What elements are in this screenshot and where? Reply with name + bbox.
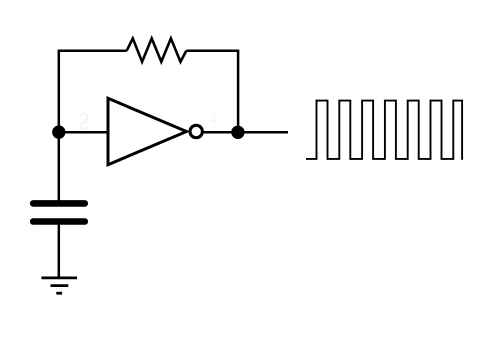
ground bar 1 [41, 276, 77, 279]
junction node left (input/cap/feedback) [52, 125, 65, 138]
wire: node to capacitor [58, 132, 61, 200]
wire: output [203, 131, 288, 134]
wire: capacitor to ground [58, 225, 61, 278]
svg-text:2: 2 [77, 108, 90, 134]
op-amp/inverter U1 triangle [108, 98, 187, 164]
junction node right (output/feedback) [231, 126, 244, 139]
output square waveform [306, 101, 462, 160]
capacitor C1 top plate [33, 200, 85, 207]
ground bar 3 [56, 292, 62, 295]
wire: input to inverter [59, 131, 108, 134]
capacitor C1 bottom plate [33, 218, 85, 225]
wire: feedback loop left vertical + top-left corner [59, 51, 127, 133]
wire: feedback loop top-right + right vertical [186, 51, 238, 133]
svg-text:4: 4 [209, 111, 218, 128]
ground bar 2 [51, 284, 69, 287]
inverter U1 output bubble [190, 125, 202, 137]
resistor R1 [127, 38, 187, 61]
